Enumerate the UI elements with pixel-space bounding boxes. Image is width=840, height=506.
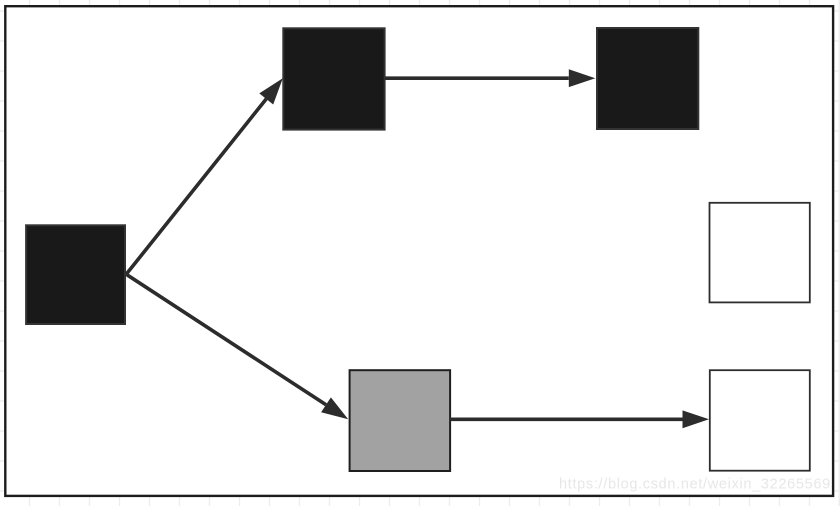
node D (right middle white box) bbox=[710, 203, 810, 303]
node B (top middle dark box) bbox=[283, 28, 384, 129]
wire A to B (diagonal arrow up-right) bbox=[126, 78, 283, 274]
wire B to C (horizontal arrow) bbox=[385, 69, 595, 87]
wire E to F (horizontal arrow) bbox=[450, 410, 709, 428]
wire A to E (diagonal arrow down-right) bbox=[126, 274, 348, 419]
node C (top right dark box) bbox=[597, 28, 698, 129]
node F (bottom right white box) bbox=[710, 370, 810, 471]
svg-text:https://blog.csdn.net/weixin_3: https://blog.csdn.net/weixin_32265569 bbox=[559, 477, 831, 493]
node E (bottom gray box) bbox=[350, 370, 451, 471]
node A (left dark box) bbox=[26, 225, 125, 324]
